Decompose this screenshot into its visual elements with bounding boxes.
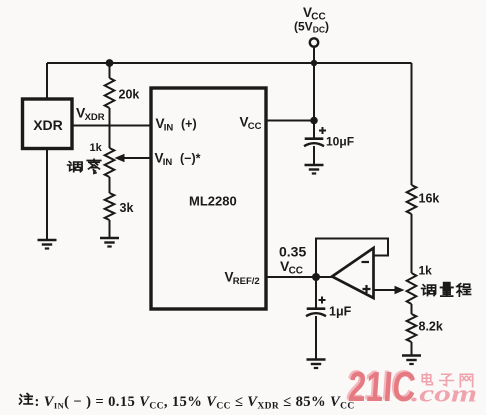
svg-text:CC: CC (289, 266, 303, 277)
svg-text:20k: 20k (119, 88, 140, 102)
svg-text:1k: 1k (419, 264, 433, 278)
svg-text:21IC: 21IC (347, 363, 417, 410)
svg-text:XDR: XDR (33, 117, 63, 133)
svg-text:16k: 16k (419, 192, 440, 206)
svg-text:ML2280: ML2280 (189, 194, 237, 209)
svg-text:1k: 1k (90, 142, 103, 154)
svg-text:1μF: 1μF (329, 305, 352, 319)
svg-text:REF/2: REF/2 (233, 276, 260, 287)
svg-text:CC: CC (311, 12, 325, 23)
svg-text:(−)*: (−)* (180, 152, 201, 166)
svg-text:10μF: 10μF (326, 135, 354, 149)
svg-text:8.2k: 8.2k (419, 320, 443, 334)
svg-text:.com: .com (411, 382, 477, 408)
svg-text:: VIN( − ) = 0.15 VCC, 15% VCC: : VIN( − ) = 0.15 VCC, 15% VCC ≤ VXDR ≤ … (35, 394, 355, 412)
svg-text:IN: IN (163, 157, 173, 168)
svg-text:IN: IN (164, 123, 174, 134)
svg-text:3k: 3k (120, 201, 134, 215)
svg-text:CC: CC (248, 121, 262, 132)
svg-text:(+): (+) (181, 117, 197, 131)
svg-text:XDR: XDR (85, 112, 105, 123)
